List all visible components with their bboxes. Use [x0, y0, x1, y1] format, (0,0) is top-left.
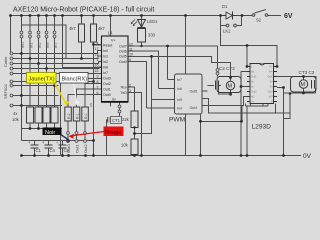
svg-text:4k7: 4k7 [69, 26, 76, 31]
svg-text:V+: V+ [251, 100, 255, 104]
svg-text:Ou3: Ou3 [268, 90, 273, 94]
svg-text:Out3: Out3 [103, 76, 111, 80]
svg-text:Out6: Out6 [119, 50, 127, 54]
svg-text:0v: 0v [112, 97, 116, 101]
svg-text:S2: S2 [256, 18, 262, 23]
svg-text:Out2: Out2 [83, 144, 88, 153]
svg-text:LED1: LED1 [147, 19, 158, 24]
svg-text:In1: In1 [103, 54, 108, 58]
svg-text:1: 1 [97, 58, 99, 62]
svg-text:In7: In7 [177, 78, 182, 82]
svg-text:In0: In0 [103, 49, 108, 53]
svg-text:In5: In5 [177, 98, 182, 102]
svg-text:11: 11 [129, 48, 133, 52]
svg-text:AXE120 Micro-Robot (PICAXE-18): AXE120 Micro-Robot (PICAXE-18) - full ci… [13, 7, 154, 14]
svg-text:17: 17 [95, 47, 99, 51]
svg-text:Out4: Out4 [190, 106, 198, 110]
svg-text:6V: 6V [284, 13, 293, 20]
svg-text:PWM: PWM [169, 117, 185, 124]
svg-text:CT1: CT1 [112, 118, 121, 123]
svg-text:C4: C4 [50, 148, 56, 153]
svg-text:Ou4: Ou4 [268, 75, 273, 79]
svg-text:In2: In2 [103, 60, 108, 64]
svg-text:Out1: Out1 [75, 144, 80, 153]
svg-text:12: 12 [129, 42, 133, 46]
svg-text:Out6: Out6 [190, 90, 198, 94]
svg-text:Blanc(RX): Blanc(RX) [62, 77, 88, 83]
svg-text:R-0: R-0 [84, 113, 88, 119]
svg-text:10: 10 [129, 53, 133, 57]
svg-text:R-1: R-1 [76, 113, 80, 119]
svg-text:D1: D1 [222, 4, 228, 9]
svg-text:SRF004: SRF004 [3, 84, 8, 99]
svg-text:R-2: R-2 [67, 113, 71, 119]
svg-text:4k7: 4k7 [98, 26, 105, 31]
svg-text:16: 16 [95, 64, 99, 68]
svg-text:Reset: Reset [103, 43, 112, 47]
svg-text:In6: In6 [45, 42, 50, 48]
svg-text:4: 4 [97, 42, 99, 46]
svg-text:LK1: LK1 [223, 29, 231, 34]
svg-text:In4: In4 [269, 70, 273, 74]
svg-text:14: 14 [108, 31, 113, 36]
svg-text:Out4: Out4 [119, 60, 127, 64]
svg-text:In2: In2 [37, 42, 42, 48]
svg-text:M: M [228, 84, 233, 90]
svg-text:10k: 10k [12, 117, 20, 122]
svg-text:V+: V+ [269, 65, 273, 69]
svg-text:10k: 10k [121, 143, 129, 148]
svg-text:C1: C1 [36, 148, 42, 153]
svg-text:3: 3 [129, 89, 131, 93]
svg-text:15: 15 [95, 69, 99, 73]
svg-text:22k: 22k [122, 117, 130, 122]
svg-text:Rcv: Rcv [121, 85, 127, 89]
svg-text:C2 CT2: C2 CT2 [219, 66, 235, 71]
svg-text:9: 9 [97, 75, 99, 79]
svg-text:Cable: Cable [3, 56, 8, 67]
svg-text:Rouge: Rouge [105, 130, 121, 136]
svg-text:Jaune(TX): Jaune(TX) [29, 77, 55, 83]
svg-text:In1: In1 [251, 70, 255, 74]
svg-text:Out1: Out1 [103, 87, 111, 91]
svg-text:2: 2 [129, 84, 131, 88]
svg-text:M: M [301, 82, 306, 88]
svg-text:18: 18 [95, 53, 99, 57]
svg-text:Out2: Out2 [251, 90, 257, 94]
svg-text:Out0: Out0 [103, 93, 111, 97]
svg-text:0V: 0V [303, 153, 312, 160]
svg-text:In0: In0 [20, 42, 25, 48]
svg-text:Out0: Out0 [66, 144, 71, 153]
svg-text:Out2: Out2 [103, 82, 111, 86]
svg-text:L293D: L293D [252, 124, 272, 131]
svg-text:Out7: Out7 [119, 44, 127, 48]
svg-text:In7: In7 [53, 42, 58, 48]
svg-text:In7: In7 [103, 71, 108, 75]
svg-text:In1: In1 [29, 42, 34, 48]
svg-text:Out5: Out5 [119, 55, 127, 59]
svg-text:Noir: Noir [45, 130, 55, 136]
svg-text:CT3 C3: CT3 C3 [299, 70, 315, 75]
svg-text:6: 6 [97, 91, 99, 95]
svg-text:8: 8 [97, 80, 99, 84]
svg-text:V+: V+ [111, 39, 116, 43]
svg-text:In6: In6 [177, 87, 182, 91]
svg-text:330: 330 [148, 33, 156, 38]
svg-text:In3: In3 [269, 95, 273, 99]
svg-text:In6: In6 [103, 65, 108, 69]
svg-text:In4: In4 [177, 107, 182, 111]
svg-text:In2: In2 [251, 95, 255, 99]
svg-text:7: 7 [97, 86, 99, 90]
svg-text:9: 9 [129, 58, 131, 62]
svg-text:Out1: Out1 [251, 75, 257, 79]
svg-text:TxD: TxD [120, 91, 127, 95]
